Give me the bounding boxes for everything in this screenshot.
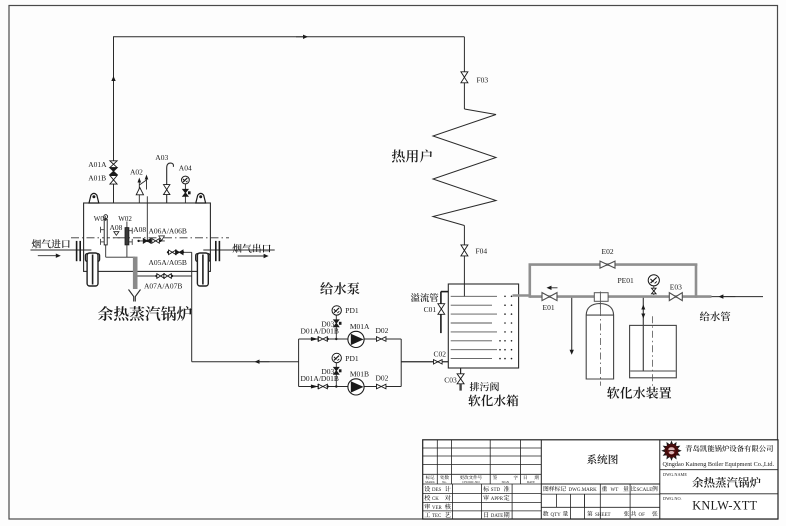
svg-text:MARK: MARK: [425, 480, 435, 484]
wire pump branch A: [299, 338, 402, 340]
wire A05 feed line: [168, 251, 192, 253]
revision header cells: [426, 475, 435, 479]
company cell divider: [659, 440, 661, 519]
flue outlet flow arrow: [264, 254, 269, 258]
check valve D01A: [311, 337, 318, 341]
valve C01: [438, 304, 445, 309]
junction to PD1 stub: [335, 385, 337, 387]
svg-text:A05A/A05B: A05A/A05B: [149, 258, 187, 267]
wire A06 sampling line: [138, 240, 165, 242]
flue inlet flange bars: [76, 241, 78, 261]
level mark triangle: [114, 232, 119, 236]
svg-text:C03: C03: [444, 375, 457, 384]
funnel symbol at A06 end: [159, 236, 165, 241]
main soft water pipe: [530, 295, 712, 298]
lifting lug left: [89, 193, 99, 203]
pump manifold right header: [400, 339, 402, 387]
boiler saddle support: [85, 254, 99, 262]
flow arrow at E01: [547, 286, 552, 290]
label 排污阀 (blowdown valve): [470, 382, 499, 391]
blowdown thick pipe: [133, 257, 138, 289]
flow arrow right on top header: [303, 35, 308, 39]
valve C03: [457, 374, 464, 379]
svg-text:A08: A08: [133, 225, 146, 234]
valve D03 (B branch): [334, 367, 339, 371]
pump M01A: [348, 331, 364, 347]
blowdown funnel: [129, 290, 134, 302]
wire down to F03: [463, 37, 465, 72]
signature row 审核: [424, 504, 430, 510]
feed inlet thin line: [712, 296, 764, 298]
svg-text:WT: WT: [611, 488, 619, 493]
cylinder centerline: [599, 292, 601, 310]
svg-text:A08: A08: [110, 223, 123, 232]
svg-text:CK: CK: [432, 497, 439, 502]
valve D02 (A branch): [376, 337, 381, 342]
water gauge W01: [104, 215, 108, 219]
svg-text:DWG.NAME: DWG.NAME: [663, 472, 687, 477]
approval row 标准: [483, 486, 489, 492]
svg-text:W01: W01: [94, 215, 108, 223]
svg-text:SIGN: SIGN: [502, 480, 510, 484]
gauge cock A04: [183, 189, 188, 193]
svg-text:PE01: PE01: [618, 276, 635, 285]
valve A07 second: [164, 274, 168, 279]
wire feedwater horizontal to pumps: [192, 361, 299, 363]
valve F04: [461, 245, 468, 251]
svg-text:D02: D02: [376, 374, 389, 383]
svg-text:SCALE: SCALE: [637, 488, 653, 493]
svg-text:APPR: APPR: [491, 497, 504, 502]
feed inlet arrow: [718, 294, 723, 298]
overflow stub: [441, 291, 448, 293]
overflow outlet pipe: [440, 314, 442, 333]
svg-text:DWG.MARK: DWG.MARK: [569, 488, 598, 493]
double flow arrows: [641, 305, 645, 310]
wire coil to F04: [463, 226, 465, 245]
boiler saddle support: [196, 254, 210, 262]
lifting lug right: [196, 193, 206, 203]
softener cylinder: [586, 304, 613, 380]
svg-text:F04: F04: [476, 247, 488, 256]
water level hatch lines: [451, 295, 497, 297]
signature row 设计: [424, 486, 430, 492]
bypass top pipe: [529, 263, 698, 266]
label 给水泵 (feed water pump): [320, 282, 359, 295]
wire pump branch B: [299, 386, 402, 388]
label 烟气出口 (flue gas outlet): [232, 244, 270, 253]
cell 重量 WT: [602, 486, 607, 491]
cell 图样标记 DWG.MARK: [544, 486, 566, 491]
flow arrow up on steam riser: [111, 76, 115, 81]
drain stub C03: [460, 368, 462, 374]
approval row 审定: [483, 495, 489, 501]
valve A03: [164, 185, 170, 190]
valve A07 first: [157, 274, 161, 279]
salt tank centerline: [651, 316, 653, 388]
label 给水管 (feed water pipe): [700, 311, 731, 321]
wire C02 line: [401, 361, 448, 363]
valve E02: [600, 261, 608, 268]
thick pipe into tank: [513, 294, 531, 297]
signature row 校对: [424, 495, 430, 501]
bypass right riser: [695, 264, 698, 298]
flow arrow toward boiler: [255, 360, 260, 364]
approval row 日期: [484, 512, 488, 517]
tank 软化水箱 shell: [448, 284, 518, 368]
junction to PD1 stub: [335, 338, 337, 340]
svg-text:KNLW-XTT: KNLW-XTT: [692, 499, 757, 513]
valve A01B: [110, 176, 117, 180]
flue inlet flow arrow: [56, 254, 61, 258]
left signature grid: [423, 493, 542, 495]
valve D03 (A branch): [334, 320, 339, 324]
title block outer frame: [423, 440, 778, 519]
drain pipe below C03: [459, 384, 461, 391]
svg-text:PD1: PD1: [345, 354, 359, 363]
svg-text:DATE: DATE: [527, 480, 535, 484]
bypass left riser: [528, 264, 531, 298]
svg-text:A03: A03: [155, 153, 168, 162]
salt tank: [630, 325, 677, 377]
svg-text:M01A: M01A: [350, 322, 370, 331]
cell 比例 SCALE: [631, 486, 636, 491]
wire steam riser from boiler to top: [113, 37, 115, 203]
valve E03: [669, 293, 676, 301]
svg-text:E03: E03: [670, 282, 682, 291]
wire top steam header: [113, 36, 464, 38]
svg-text:No.: No.: [442, 480, 447, 484]
pressure gauge PD1 (A branch): [332, 306, 341, 315]
label 系统图 (system diagram): [587, 454, 618, 464]
valve E01: [542, 293, 550, 301]
pressure gauge PD1 (B branch): [332, 353, 341, 362]
pressure gauge PE01: [648, 275, 659, 286]
svg-text:A04: A04: [179, 164, 192, 173]
salt tank drop pipe: [642, 298, 644, 371]
svg-text:A01A: A01A: [88, 160, 107, 169]
label 软化水箱 (softened water tank): [468, 395, 518, 407]
company name CN: [686, 445, 773, 452]
pressure gauge A04: [184, 183, 186, 203]
valve A06 second: [152, 239, 156, 244]
softener left drop pipe: [571, 298, 573, 350]
svg-text:CH.DOC.NO: CH.DOC.NO: [462, 480, 480, 484]
heat user coil: [433, 109, 496, 226]
pump manifold left header: [298, 339, 300, 387]
svg-text:DWG.NO.: DWG.NO.: [663, 496, 682, 501]
check valve A01 (solid): [110, 168, 117, 171]
svg-text:F03: F03: [477, 76, 489, 85]
signature row 工艺: [424, 512, 430, 517]
svg-text:M01B: M01B: [350, 370, 369, 379]
label 热用户 (heat user): [392, 149, 432, 162]
label 余热蒸汽锅炉 (waste heat steam boiler): [98, 306, 192, 321]
flue inlet duct line: [31, 249, 92, 251]
wire tank feed to pumps: [401, 361, 448, 363]
svg-text:C01: C01: [424, 305, 437, 314]
svg-text:STD: STD: [491, 488, 501, 493]
label 溢流管 (overflow pipe): [411, 293, 439, 302]
svg-text:D01A/D01B: D01A/D01B: [301, 327, 339, 336]
wire feedwater downpipe: [191, 252, 193, 361]
company logo gear: [661, 441, 681, 461]
wire F04 to tank: [463, 256, 465, 296]
valve D02 (B branch): [376, 384, 381, 389]
cell 共 OF 张: [631, 511, 636, 516]
label 软化水装置 (water softening unit): [607, 387, 671, 399]
valve A01A: [110, 161, 117, 164]
internal inlet pipe from F04: [463, 284, 465, 296]
svg-text:QTY: QTY: [551, 513, 562, 518]
svg-text:A07A/A07B: A07A/A07B: [144, 281, 182, 290]
cell 第 SHEET 张: [587, 511, 592, 516]
svg-text:TEC: TEC: [432, 514, 441, 519]
wire A07 blowdown branch: [138, 275, 192, 277]
flue outlet flange bars: [215, 241, 217, 261]
drawing name 余热蒸汽锅炉: [692, 477, 760, 488]
svg-text:SHEET: SHEET: [595, 513, 611, 518]
系统图 cell divider: [540, 440, 542, 519]
valve F03: [461, 72, 468, 78]
steam outlet stub inside drum: [146, 196, 148, 240]
valve A05 second: [176, 250, 180, 255]
valve C02: [434, 360, 438, 364]
svg-text:Qingdao Kaineng Boiler Equipme: Qingdao Kaineng Boiler Equipment Co.,Ltd…: [663, 461, 775, 468]
siphon pipe A03: [167, 163, 174, 203]
softener top fitting: [594, 293, 608, 302]
svg-text:E01: E01: [543, 303, 555, 312]
svg-text:E02: E02: [602, 247, 614, 256]
safety valve A02 assembly: [138, 182, 140, 203]
svg-text:OF: OF: [639, 513, 646, 518]
cell 数量 QTY: [543, 511, 548, 516]
flue outlet duct line: [203, 249, 274, 251]
valve D01A: [318, 337, 323, 342]
svg-text:A06A/A06B: A06A/A06B: [149, 227, 187, 236]
svg-text:DES: DES: [432, 488, 442, 493]
svg-text:VER: VER: [432, 506, 443, 511]
svg-text:A01B: A01B: [88, 174, 106, 183]
svg-text:D02: D02: [376, 326, 389, 335]
valve A05 first: [169, 250, 173, 255]
svg-text:PD1: PD1: [345, 306, 359, 315]
valve D01B: [318, 384, 323, 389]
label 烟气进口 (flue gas inlet): [32, 239, 70, 248]
svg-text:D01A/D01B: D01A/D01B: [301, 374, 339, 383]
boiler drum shell: [84, 203, 211, 271]
right middle grid: [541, 483, 660, 485]
check valve D01B: [311, 385, 318, 389]
pump M01B: [348, 379, 364, 395]
water gauge W02: [126, 222, 128, 228]
svg-text:DATE: DATE: [491, 514, 504, 519]
revision table grid: [423, 447, 542, 449]
wire F03 to coil: [463, 83, 465, 109]
drum centerline dash-dot: [71, 237, 229, 239]
svg-text:C02: C02: [434, 349, 447, 358]
svg-text:A02: A02: [130, 167, 143, 176]
svg-text:W02: W02: [118, 215, 132, 223]
salt tank inner bottom: [630, 370, 676, 372]
gauge drain header: [106, 256, 135, 258]
valve A06 first: [143, 239, 147, 244]
